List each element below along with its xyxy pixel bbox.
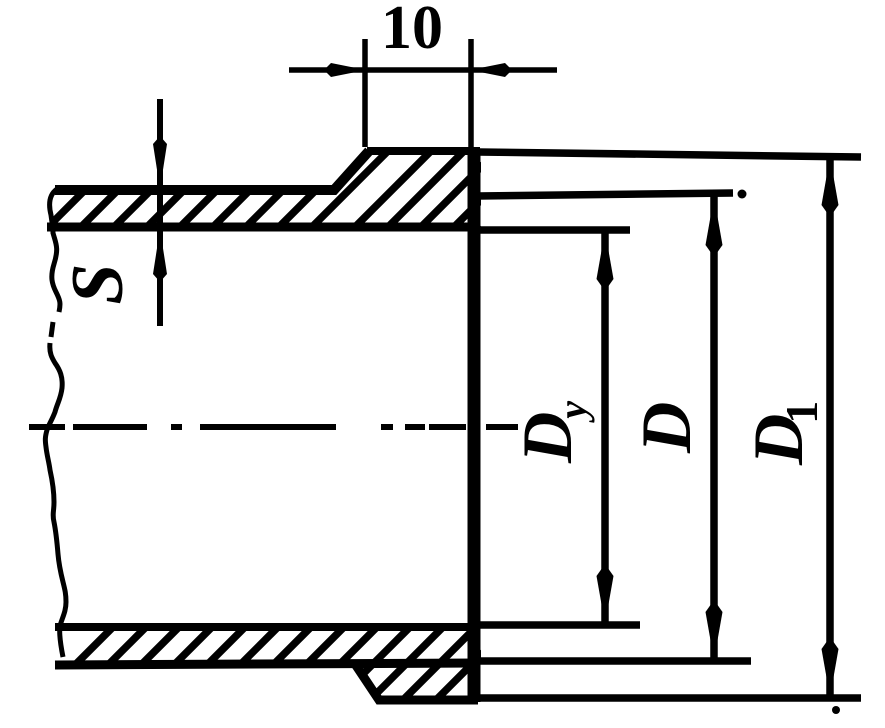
svg-text:10: 10 — [381, 0, 443, 62]
svg-text:S: S — [57, 263, 139, 304]
svg-text:D: D — [628, 402, 706, 454]
